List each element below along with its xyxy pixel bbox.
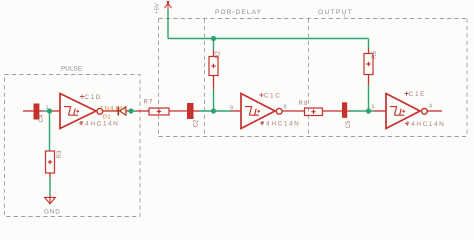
svg-text:IC1C: IC1C xyxy=(261,93,282,100)
wire IC1C out xyxy=(282,110,304,112)
wire R2 lower xyxy=(213,76,215,90)
op-amp IC1E inverter xyxy=(386,94,427,129)
wire diode out xyxy=(126,110,129,112)
svg-text:C4: C4 xyxy=(39,114,45,122)
wire IC1D out xyxy=(103,110,118,112)
label POR DELAY origin mark xyxy=(232,11,235,13)
wire R5 vertical upper xyxy=(368,39,370,49)
svg-text:GND: GND xyxy=(44,209,61,216)
svg-text:R5: R5 xyxy=(372,51,378,59)
label 74HC14N (IC1C) xyxy=(260,121,264,125)
wire R2 upper xyxy=(213,39,215,51)
wire to R7 xyxy=(129,110,137,112)
wire R3 to GND xyxy=(49,173,51,177)
label IC1D xyxy=(80,95,84,99)
supply +5V symbol xyxy=(165,1,172,10)
svg-text:IC1E: IC1E xyxy=(406,91,426,98)
label 74HC14N (IC1D) xyxy=(79,121,83,125)
frame POR DELAY / OUTPUT boxes xyxy=(159,19,468,137)
capacitor C4 xyxy=(34,104,40,120)
resistor R8 xyxy=(305,108,323,116)
wire R5 lower xyxy=(368,75,370,86)
capacitor C5 xyxy=(342,102,347,118)
node input junction xyxy=(47,108,52,113)
wire +5V vertical xyxy=(167,9,169,39)
ground xyxy=(45,197,56,203)
svg-text:PULSE: PULSE xyxy=(61,66,82,73)
label IC1E xyxy=(405,92,409,96)
wire C4 to gate xyxy=(39,110,43,112)
resistor R7 xyxy=(149,108,169,115)
wire gate input to R3 xyxy=(49,111,51,151)
label OUTPUT origin mark xyxy=(344,15,346,18)
op-amp IC1C inverter xyxy=(241,94,282,129)
svg-text:C2: C2 xyxy=(193,119,199,127)
diode D1 xyxy=(118,107,126,116)
node after diode xyxy=(128,108,133,113)
svg-text:3: 3 xyxy=(371,105,374,111)
svg-text:74HC14N: 74HC14N xyxy=(80,121,119,128)
wire input stub xyxy=(23,110,34,112)
node junction on rail at R2 xyxy=(211,36,216,41)
svg-text:R3: R3 xyxy=(57,150,63,158)
svg-text:R8: R8 xyxy=(299,101,309,107)
frame PULSE box xyxy=(5,75,141,217)
wire +5V horizontal rail xyxy=(168,38,369,40)
wire output xyxy=(427,110,442,112)
svg-text:D1: D1 xyxy=(103,115,111,121)
svg-text:1: 1 xyxy=(45,105,48,111)
resistor R3 xyxy=(46,151,55,173)
svg-text:IC1D: IC1D xyxy=(81,94,102,101)
svg-text:OUTPUT: OUTPUT xyxy=(318,9,353,16)
label 74HC14N (IC1E) xyxy=(405,122,409,126)
node R5 bottom junction xyxy=(366,108,371,113)
op-amp IC1D inverter xyxy=(60,94,103,129)
wire to IC1D xyxy=(52,110,60,112)
svg-text:R7: R7 xyxy=(144,100,154,106)
svg-text:POR DELAY: POR DELAY xyxy=(215,9,262,16)
resistor R5 xyxy=(364,54,373,75)
wire pin 9 lead xyxy=(231,110,241,112)
wire pin 3 lead xyxy=(374,110,386,112)
wire R7 to C2 xyxy=(169,110,187,112)
node R2 bottom junction xyxy=(211,108,216,113)
wire R8 to C5 xyxy=(323,110,343,112)
wire C5 to IC1E xyxy=(347,110,350,112)
svg-text:+5V: +5V xyxy=(154,3,160,14)
svg-text:4: 4 xyxy=(429,104,432,110)
svg-text:1N4148: 1N4148 xyxy=(100,106,128,113)
svg-text:C5: C5 xyxy=(346,120,352,128)
wire C2 to IC1C xyxy=(194,110,200,112)
svg-text:74HC14N: 74HC14N xyxy=(261,121,300,128)
svg-text:74HC14N: 74HC14N xyxy=(406,121,445,128)
resistor R2 xyxy=(209,57,218,76)
svg-text:R2: R2 xyxy=(216,51,222,59)
label IC1C xyxy=(260,93,264,97)
svg-text:8: 8 xyxy=(283,105,286,111)
capacitor C2 xyxy=(187,103,194,119)
